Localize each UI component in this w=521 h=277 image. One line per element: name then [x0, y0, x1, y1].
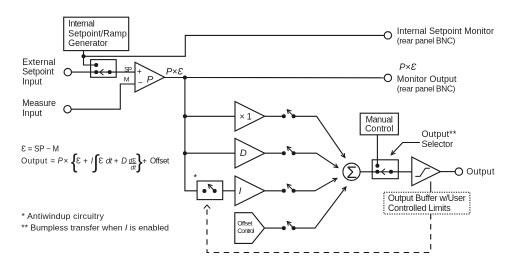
svg-text:Ɛ: Ɛ	[99, 156, 104, 165]
svg-text:+: +	[137, 66, 142, 76]
svg-text:Offset: Offset	[237, 221, 252, 228]
svg-text:Internal Setpoint Monitor: Internal Setpoint Monitor	[397, 26, 494, 36]
wire: buffer to limits box	[430, 182, 432, 193]
wire: trunk to D amp	[185, 152, 235, 154]
terminal: Measure Input	[64, 106, 71, 113]
dashed feedback: limits to antiwindup	[207, 210, 431, 253]
svg-text:Control: Control	[237, 228, 255, 235]
switch box: antiwindup	[197, 181, 223, 200]
svg-text:Ɛ = SP − M: Ɛ = SP − M	[21, 144, 59, 153]
wire: selector to P amp	[96, 71, 135, 73]
svg-text:D: D	[240, 148, 247, 159]
switch box: output selector	[372, 160, 398, 179]
node: trunk junction to x1	[183, 114, 187, 118]
wire: antiwindup to I amp	[223, 190, 235, 192]
op-amp: I integral path	[235, 176, 265, 206]
wire: x1 out to switch	[265, 115, 284, 117]
svg-text:M: M	[124, 76, 130, 83]
node: junction dot on generator output	[82, 54, 86, 58]
svg-text:P×Ɛ: P×Ɛ	[399, 62, 417, 72]
terminal: External Setpoint Input	[64, 68, 71, 75]
node: trunk junction to D	[183, 151, 187, 155]
wire: I switch to sigma	[294, 178, 337, 191]
op-amp: output buffer with limiter	[412, 157, 441, 186]
wire: I out to switch	[265, 190, 284, 192]
svg-text:Input: Input	[22, 108, 42, 118]
svg-text:D: D	[121, 156, 127, 165]
box: Internal Setpoint/Ramp Generator	[64, 17, 129, 50]
svg-text:P: P	[147, 75, 154, 86]
svg-text:Controlled Limits: Controlled Limits	[388, 203, 451, 213]
svg-text:Setpoint: Setpoint	[22, 67, 54, 77]
switch box: setpoint selector	[91, 60, 117, 78]
svg-text:P×Ɛ: P×Ɛ	[166, 67, 184, 77]
wire: internal setpoint monitor line	[84, 35, 385, 56]
svg-text:×: ×	[64, 156, 69, 165]
limiter curve inside buffer	[415, 168, 430, 176]
wire: D switch to sigma	[294, 153, 338, 167]
svg-text:Measure: Measure	[22, 98, 56, 108]
wire: vertical trunk from P×E node	[185, 78, 197, 191]
svg-text:Generator: Generator	[68, 38, 107, 48]
wire: manual control to selector	[376, 135, 378, 166]
svg-text:I: I	[239, 186, 242, 197]
svg-text:+: +	[114, 156, 119, 165]
wire: sigma to output selector	[360, 171, 377, 173]
svg-text:*: *	[194, 173, 198, 183]
svg-text:SP: SP	[124, 66, 132, 73]
svg-text:+: +	[142, 156, 147, 165]
svg-text:Output: Output	[466, 167, 495, 177]
wire: generator output down to setpoint selector	[84, 51, 97, 65]
switch: D path enable	[282, 151, 286, 155]
svg-text:Ɛ: Ɛ	[76, 156, 81, 165]
switch: offset enable	[282, 226, 286, 230]
wire: buffer to output	[440, 171, 455, 173]
wire: offset out to switch	[265, 227, 284, 229]
block: Offset Control pentagon	[235, 213, 265, 244]
callout arrow: Output Selector	[391, 143, 420, 155]
op-amp: D derivative path	[235, 138, 265, 168]
svg-text:Output Buffer w/User: Output Buffer w/User	[388, 193, 466, 203]
summing node sigma	[343, 163, 360, 180]
terminal: Output	[455, 168, 462, 175]
wire: external setpoint into selector	[72, 71, 97, 73]
svg-text:Control: Control	[365, 124, 393, 134]
wire: P×E monitor output line	[185, 77, 384, 79]
wire: selector to buffer	[391, 171, 412, 173]
arrow: selector wiper pointing left	[100, 69, 104, 75]
box: Output Buffer w/User Controlled Limits (dotted)	[384, 192, 470, 214]
svg-text:Selector: Selector	[422, 139, 453, 149]
terminal: Monitor Output BNC	[384, 74, 391, 81]
svg-text:−: −	[138, 77, 143, 87]
svg-text:+: +	[83, 156, 88, 165]
node: external setpoint pole	[94, 70, 98, 74]
node: P×E node	[183, 76, 187, 80]
svg-text:* Antiwindup circuitry: * Antiwindup circuitry	[22, 211, 105, 221]
svg-text:Internal: Internal	[68, 19, 94, 29]
wire: D out to switch	[265, 152, 284, 154]
terminal: Internal Setpoint Monitor BNC	[384, 32, 391, 39]
svg-text:dt: dt	[106, 156, 113, 165]
arrowhead up at antiwindup	[204, 205, 210, 209]
svg-text:(rear panel BNC): (rear panel BNC)	[397, 37, 456, 46]
node: internal setpoint pole	[94, 63, 98, 67]
switch: x1 path enable	[282, 114, 286, 118]
wire: measure input to P amp minus	[71, 84, 135, 109]
wire: x1 switch to sigma	[294, 116, 345, 157]
svg-text:× 1: × 1	[240, 112, 252, 122]
svg-text:Monitor Output: Monitor Output	[397, 74, 457, 84]
svg-text:Output**: Output**	[422, 129, 457, 139]
switch: I path enable	[282, 189, 286, 193]
wire: offset switch to sigma	[294, 187, 346, 228]
wire: P output to node	[165, 77, 185, 79]
op-amp: x1 proportional path	[235, 102, 265, 132]
svg-text:Input: Input	[22, 76, 42, 86]
svg-text:** Bumpless transfer when I is: ** Bumpless transfer when I is enabled	[21, 222, 169, 232]
box: Manual Control	[360, 113, 398, 135]
svg-text:Σ: Σ	[346, 163, 357, 182]
svg-text:External: External	[22, 57, 55, 67]
svg-text:(rear panel BNC): (rear panel BNC)	[397, 85, 456, 94]
op-amp: P error amplifier	[135, 62, 165, 92]
svg-text:Output =: Output =	[21, 156, 55, 165]
wire: trunk to x1 amp	[185, 115, 235, 117]
node: selector common	[108, 70, 112, 74]
svg-text:Offset: Offset	[150, 156, 170, 165]
